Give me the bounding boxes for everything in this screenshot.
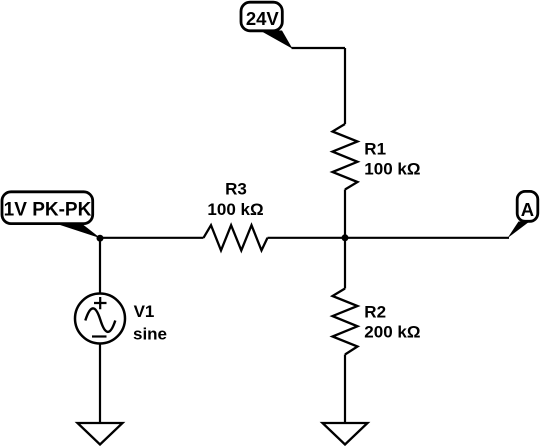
- resistor R3: [204, 225, 268, 250]
- sine wave: [85, 308, 115, 332]
- plus sign: [94, 297, 107, 309]
- wire from V1 down to ground: [99, 344, 101, 423]
- resistor R1: [333, 124, 358, 190]
- svg-text:100 kΩ: 100 kΩ: [207, 200, 263, 219]
- resistor R2: [333, 289, 358, 355]
- wire from left node to R3: [100, 237, 204, 239]
- svg-text:100 kΩ: 100 kΩ: [364, 159, 420, 178]
- wire from R3 to net label A: [268, 237, 510, 239]
- net label A: [517, 191, 538, 221]
- svg-text:A: A: [521, 199, 534, 220]
- svg-text:sine: sine: [133, 325, 167, 344]
- minus sign: [92, 335, 107, 337]
- svg-text:24V: 24V: [246, 8, 280, 29]
- wire from top corner down to R1: [344, 48, 346, 124]
- net label 1V PK-PK: [2, 192, 93, 224]
- voltage source V1: [75, 294, 125, 344]
- node junction (left, source/R3): [97, 235, 104, 242]
- wire from R1 to node A: [344, 190, 346, 289]
- wire from 24V pointer to top corner: [292, 47, 346, 49]
- pointer from 24V label to wire: [260, 31, 293, 49]
- ground (right, under R2): [323, 423, 368, 445]
- svg-text:R3: R3: [225, 180, 247, 199]
- svg-text:R2: R2: [364, 303, 386, 322]
- pointer from A label to wire end: [508, 222, 530, 239]
- node junction (center, R1/R2/R3): [342, 234, 349, 241]
- svg-text:200 kΩ: 200 kΩ: [364, 323, 420, 342]
- svg-text:1V PK-PK: 1V PK-PK: [4, 199, 92, 220]
- wire from R2 down to ground: [344, 355, 346, 424]
- net label 24V: [241, 2, 282, 31]
- svg-text:R1: R1: [364, 140, 386, 159]
- pointer from 1V PK-PK label to node: [54, 223, 101, 238]
- svg-text:V1: V1: [134, 302, 155, 321]
- wire from left node down to V1: [99, 238, 101, 293]
- ground (left, under V1): [78, 423, 123, 445]
